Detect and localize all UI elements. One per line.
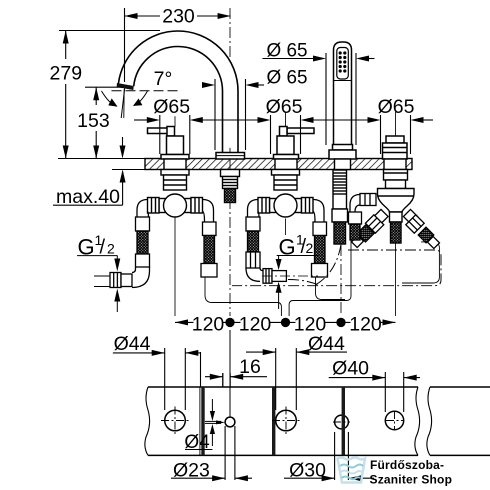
svg-text:120: 120 bbox=[239, 314, 272, 336]
svg-text:Ø40: Ø40 bbox=[332, 357, 369, 379]
svg-text:Ø 65: Ø 65 bbox=[267, 40, 308, 62]
svg-text:Ø23: Ø23 bbox=[173, 460, 210, 482]
svg-text:153: 153 bbox=[77, 110, 110, 132]
svg-text:Fürdőszoba-: Fürdőszoba- bbox=[370, 458, 444, 472]
svg-text:G: G bbox=[279, 235, 296, 260]
svg-text:120: 120 bbox=[192, 314, 225, 336]
svg-text:120: 120 bbox=[349, 314, 382, 336]
svg-text:2: 2 bbox=[107, 241, 115, 257]
svg-text:230: 230 bbox=[162, 6, 195, 28]
svg-text:/: / bbox=[100, 237, 106, 259]
svg-text:16: 16 bbox=[239, 356, 261, 378]
svg-text:Ø65: Ø65 bbox=[378, 96, 415, 118]
svg-text:Szaniter Shop: Szaniter Shop bbox=[370, 473, 453, 487]
svg-text:max.40: max.40 bbox=[56, 186, 120, 208]
svg-text:279: 279 bbox=[50, 63, 83, 85]
svg-text:Ø30: Ø30 bbox=[289, 460, 326, 482]
svg-text:Ø65: Ø65 bbox=[266, 96, 303, 118]
svg-text:2: 2 bbox=[306, 240, 314, 256]
svg-text:G: G bbox=[78, 235, 95, 260]
svg-text:Ø 65: Ø 65 bbox=[267, 67, 308, 89]
svg-text:Ø4: Ø4 bbox=[184, 432, 210, 453]
svg-text:Ø44: Ø44 bbox=[308, 333, 345, 355]
svg-text:7°: 7° bbox=[154, 68, 173, 90]
svg-text:Ø65: Ø65 bbox=[153, 96, 190, 118]
svg-text:Ø44: Ø44 bbox=[114, 333, 151, 355]
